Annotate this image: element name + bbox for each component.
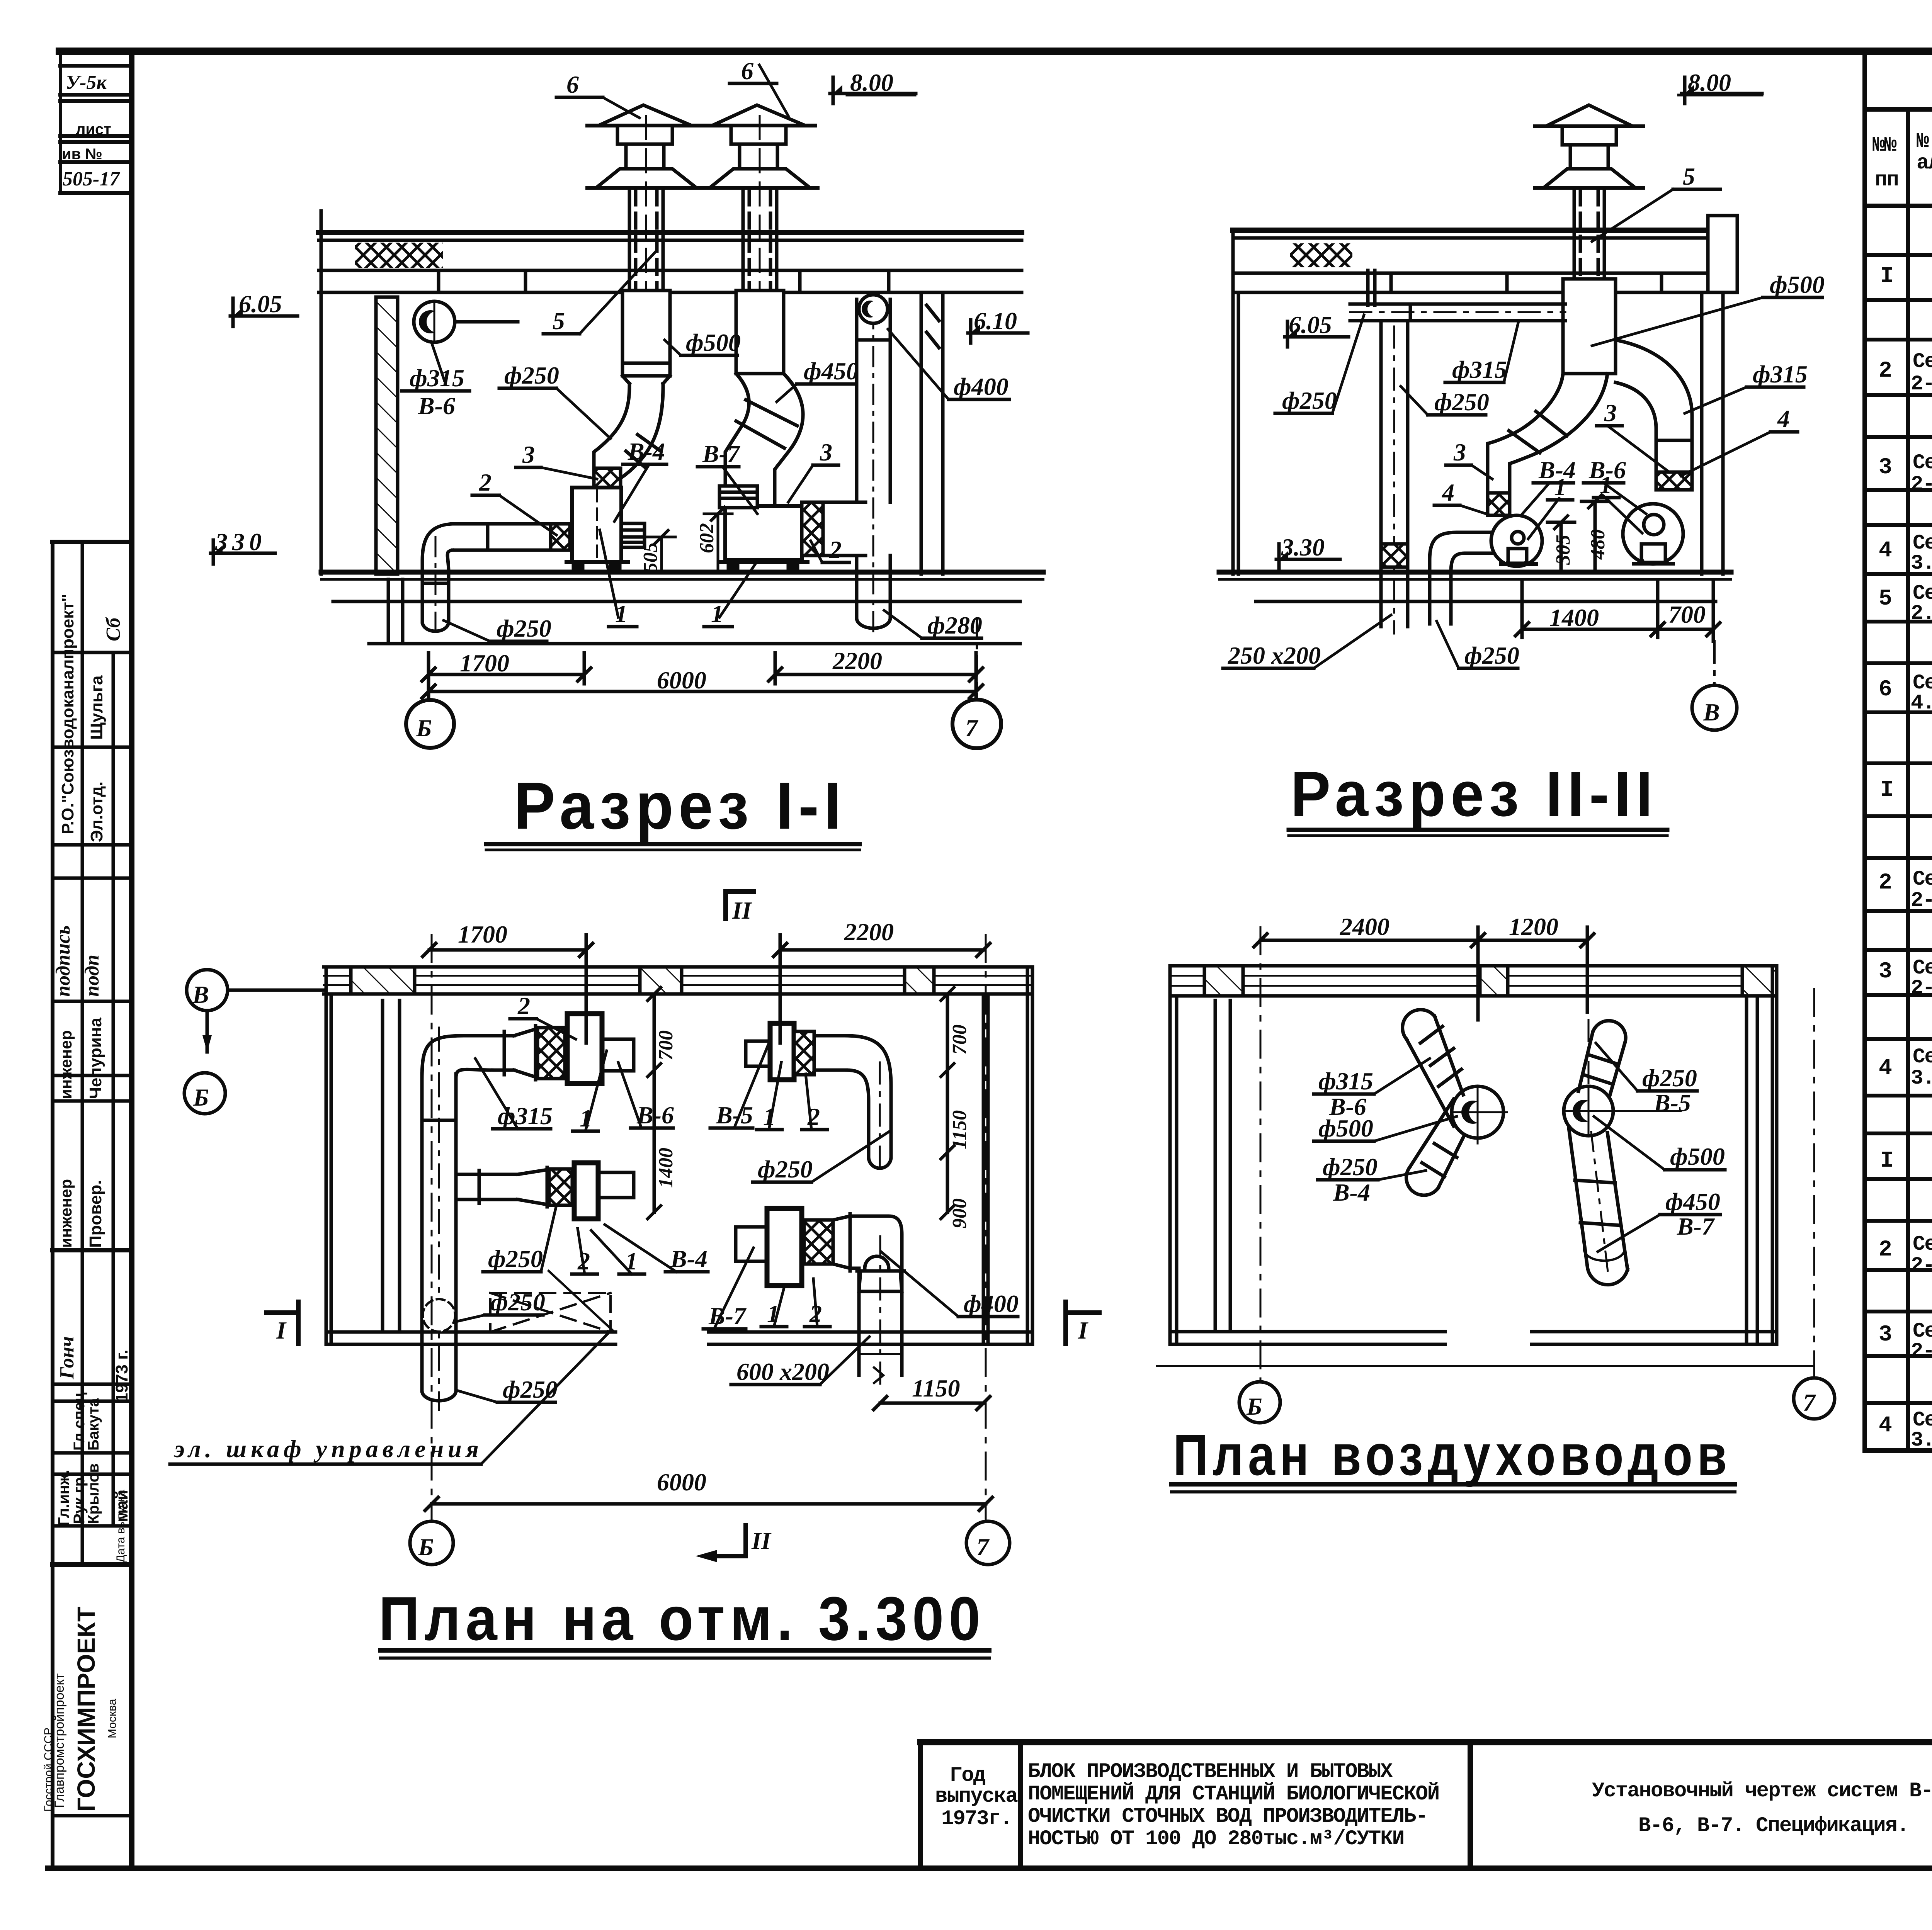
svg-text:7: 7 xyxy=(1803,1389,1816,1416)
fan 2 motor on top xyxy=(719,486,757,508)
right walls xyxy=(982,994,985,1344)
frame top border xyxy=(60,48,1932,55)
svg-text:900: 900 xyxy=(949,1198,971,1228)
svg-text:Дата выпуска: Дата выпуска xyxy=(114,1490,127,1563)
crescent vent symbol on riser top xyxy=(859,295,888,323)
column axis to bubble V xyxy=(1713,641,1716,685)
elevation mark 6.10 xyxy=(969,320,973,343)
horizontal duct B-6 line xyxy=(495,1034,514,1038)
flex insert B-4 (pos 2) xyxy=(549,1169,572,1205)
svg-text:8.00: 8.00 xyxy=(1688,69,1731,96)
column bubble 7 bottom xyxy=(966,1521,1010,1565)
svg-text:505-17: 505-17 xyxy=(63,168,120,190)
spec table verticals xyxy=(1862,54,1867,1451)
svg-text:1700: 1700 xyxy=(458,921,507,948)
svg-text:4: 4 xyxy=(1879,1056,1892,1081)
B-7 suction stub xyxy=(736,1225,767,1229)
parapet column above roof right xyxy=(1708,216,1737,292)
column axis verticals xyxy=(431,935,433,1521)
strip inner verticals xyxy=(81,542,84,1565)
svg-text:3.904-3(прим.): 3.904-3(прим.) xyxy=(1911,1067,1932,1090)
svg-text:2-494-8: 2-494-8 xyxy=(1911,372,1932,396)
svg-text:2-494-8: 2-494-8 xyxy=(1911,889,1932,912)
svg-text:пп: пп xyxy=(1875,168,1898,192)
svg-text:700: 700 xyxy=(655,1030,677,1060)
svg-text:5: 5 xyxy=(1879,586,1891,612)
svg-text:2: 2 xyxy=(517,992,530,1019)
svg-text:№ типового: № типового xyxy=(1917,130,1932,153)
duct f450 to S xyxy=(1569,1128,1628,1269)
roof slab bottom lines xyxy=(319,269,1022,272)
svg-text:подпись: подпись xyxy=(52,925,74,997)
svg-text:I: I xyxy=(276,1317,287,1344)
svg-text:План на отм. 3.300: План на отм. 3.300 xyxy=(379,1584,985,1653)
svg-text:1150: 1150 xyxy=(949,1110,971,1149)
svg-text:Год: Год xyxy=(950,1764,986,1787)
svg-text:В-4: В-4 xyxy=(628,438,665,465)
svg-text:НОСТЬЮ ОТ 100 ДО 280тыс.м³/СУТ: НОСТЬЮ ОТ 100 ДО 280тыс.м³/СУТКИ xyxy=(1028,1827,1404,1851)
stack 2 casing box xyxy=(736,291,784,374)
svg-text:2: 2 xyxy=(1879,358,1891,384)
svg-text:2: 2 xyxy=(1879,1237,1891,1262)
section mark I right xyxy=(1066,1310,1099,1315)
stack 1 transition to elbow xyxy=(622,376,629,384)
svg-text:В-6, В-7. Спецификация.: В-6, В-7. Спецификация. xyxy=(1638,1814,1908,1838)
section mark II bottom xyxy=(743,1525,748,1556)
section mark I left xyxy=(267,1310,298,1315)
svg-text:ф250: ф250 xyxy=(497,615,551,642)
small elbow duct near floor xyxy=(1430,532,1492,624)
bottom wall xyxy=(326,1330,616,1334)
column bubble 7 xyxy=(1794,1378,1835,1419)
drawing C leaders xyxy=(170,1019,1018,1658)
svg-text:II: II xyxy=(751,1527,772,1555)
dim line 2400 / 1200 xyxy=(1260,939,1587,942)
svg-text:700: 700 xyxy=(949,1024,971,1055)
stack 2 neck xyxy=(738,144,742,169)
stack 2 lower umbrella xyxy=(710,169,810,188)
right walls xyxy=(1745,996,1748,1344)
title underline xyxy=(381,1648,989,1653)
svg-text:3.904-3(прим): 3.904-3(прим) xyxy=(1911,1429,1932,1452)
svg-text:8.00: 8.00 xyxy=(850,69,893,96)
svg-text:эл. шкаф управления: эл. шкаф управления xyxy=(173,1435,483,1463)
dim 480 vertical xyxy=(1594,501,1597,572)
svg-text:ф250: ф250 xyxy=(1464,642,1519,669)
svg-text:1400: 1400 xyxy=(655,1148,677,1188)
frame left border xyxy=(129,51,134,1868)
svg-text:ф400: ф400 xyxy=(954,373,1009,400)
svg-text:602: 602 xyxy=(696,523,718,553)
svg-text:I: I xyxy=(1880,264,1893,289)
riser circle symbol xyxy=(423,1299,455,1332)
svg-text:ф500: ф500 xyxy=(1770,271,1825,298)
dimension line 1700 xyxy=(429,673,584,676)
svg-text:Разрез II-II: Разрез II-II xyxy=(1291,758,1658,829)
svg-text:альбома или: альбома или xyxy=(1917,151,1932,175)
roof slab lines xyxy=(1233,228,1723,233)
svg-text:Установочный чертеж систем В-4: Установочный чертеж систем В-4, В-5, xyxy=(1592,1779,1932,1803)
right wall xyxy=(920,292,923,574)
drawing C labels xyxy=(173,897,1088,1653)
B-7 discharge cone xyxy=(833,1216,850,1268)
column axes xyxy=(1260,927,1262,1382)
svg-text:6: 6 xyxy=(566,71,579,98)
svg-text:3: 3 xyxy=(1879,959,1891,984)
svg-text:ф250: ф250 xyxy=(758,1155,813,1183)
column bubble B (left top) xyxy=(187,970,228,1011)
svg-text:ф500: ф500 xyxy=(686,329,741,356)
duct f315 to NW xyxy=(1406,1016,1463,1126)
svg-text:7: 7 xyxy=(965,714,979,742)
left vertical duct f250 (to below floor) xyxy=(1379,321,1383,627)
duct f250 to SW xyxy=(1410,1099,1464,1188)
small table row lines xyxy=(60,64,129,68)
svg-text:1150: 1150 xyxy=(912,1374,960,1402)
svg-text:3: 3 xyxy=(1453,438,1466,466)
svg-text:Б: Б xyxy=(193,1084,209,1111)
svg-text:6.05: 6.05 xyxy=(1289,311,1332,338)
column bubble B xyxy=(406,700,454,748)
svg-text:600 х200: 600 х200 xyxy=(736,1358,829,1385)
section mark II top xyxy=(723,892,728,919)
small table left edge xyxy=(59,51,62,193)
svg-text:ф250: ф250 xyxy=(490,1288,545,1316)
inner vertical dim chain xyxy=(653,994,656,1212)
svg-text:3: 3 xyxy=(522,441,535,468)
top elbow to horizontal duct 1 xyxy=(422,1036,495,1078)
svg-text:В-4: В-4 xyxy=(1333,1179,1370,1206)
svg-text:5: 5 xyxy=(1683,163,1695,190)
svg-text:6000: 6000 xyxy=(657,666,706,694)
small table texts xyxy=(62,71,120,190)
svg-text:7: 7 xyxy=(976,1533,990,1561)
elevation 6.05 xyxy=(1286,321,1289,347)
fan box B-4 (pos 1) xyxy=(574,1163,598,1219)
insulation crosshatch patch on roof xyxy=(355,243,443,268)
svg-text:План воздуховодов: План воздуховодов xyxy=(1173,1422,1731,1487)
svg-text:3.904-3(прим.): 3.904-3(прим.) xyxy=(1911,552,1932,575)
svg-text:II: II xyxy=(732,897,752,924)
fan 2 base feet xyxy=(719,560,808,564)
spec table body text xyxy=(1879,223,1932,1453)
svg-text:4: 4 xyxy=(1879,538,1892,563)
svg-text:ф315: ф315 xyxy=(410,364,464,392)
flex insert (pos 2) on horizontal duct xyxy=(551,524,570,550)
dimension line 2200 xyxy=(775,673,976,676)
svg-text:ф450: ф450 xyxy=(804,357,859,385)
flex insert B-7 (pos 2) xyxy=(804,1220,833,1264)
svg-text:ОЧИСТКИ СТОЧНЫХ ВОД ПРОИЗВОДИТ: ОЧИСТКИ СТОЧНЫХ ВОД ПРОИЗВОДИТЕЛЬ- xyxy=(1028,1805,1427,1828)
svg-text:2-494-8: 2-494-8 xyxy=(1911,1254,1932,1278)
stack 2 cap body xyxy=(731,126,786,144)
svg-text:505: 505 xyxy=(639,542,662,573)
title underline xyxy=(1289,828,1667,832)
column bubble B xyxy=(1239,1382,1280,1423)
svg-text:В-7: В-7 xyxy=(708,1302,747,1330)
column bubble B bottom xyxy=(410,1521,453,1565)
discharge duct to riser xyxy=(823,501,866,504)
svg-text:4: 4 xyxy=(1879,1413,1892,1438)
svg-text:6.10: 6.10 xyxy=(974,307,1017,335)
elevation mark 330 xyxy=(211,552,275,555)
fan box B-7 (pos 1) xyxy=(767,1208,802,1286)
flex insert B-4 suction xyxy=(1488,493,1510,515)
svg-text:инженер: инженер xyxy=(57,1030,75,1099)
title underline xyxy=(486,842,860,846)
svg-text:В: В xyxy=(192,981,209,1008)
svg-text:ф315: ф315 xyxy=(1452,356,1507,383)
insulation crosshatch patch xyxy=(1290,243,1352,267)
svg-text:В-6: В-6 xyxy=(418,392,455,420)
crescent in left fan xyxy=(1461,1101,1485,1124)
dim 1150 bottom right xyxy=(880,1402,983,1405)
svg-text:250 х200: 250 х200 xyxy=(1228,642,1321,669)
elevation mark 6.05 xyxy=(231,298,235,326)
svg-text:2-494-8: 2-494-8 xyxy=(1911,473,1932,496)
elevation 8.00 xyxy=(1683,77,1687,104)
stack 1 neck xyxy=(624,144,628,169)
B-5 discharge duct and elbow down xyxy=(814,1034,846,1038)
svg-text:Серия: Серия xyxy=(1913,1045,1932,1069)
svg-text:Серия: Серия xyxy=(1913,868,1932,891)
svg-text:Р.О."Союзводоканалпроект": Р.О."Союзводоканалпроект" xyxy=(58,594,77,834)
frame bottom border xyxy=(48,1865,1932,1871)
title underline xyxy=(1172,1482,1735,1487)
stack lower umbrella xyxy=(1544,169,1635,188)
drawing B leaders xyxy=(1223,95,1822,836)
left wall xyxy=(325,967,328,1344)
right wall xyxy=(1700,292,1704,574)
svg-text:Серия: Серия xyxy=(1913,1233,1932,1256)
strip outer left edge xyxy=(51,542,54,1868)
svg-text:I: I xyxy=(1880,1148,1893,1174)
svg-text:ф250: ф250 xyxy=(504,362,559,389)
svg-text:ф500: ф500 xyxy=(1670,1143,1725,1170)
flex insert (pos 2) on fan2 discharge xyxy=(802,502,823,556)
electric cabinet dashed box xyxy=(490,1293,611,1332)
column bubble B' (left lower) xyxy=(184,1073,225,1114)
fan unit 2 (pos 1) xyxy=(725,506,802,560)
column axis lines xyxy=(428,657,430,700)
drawing D labels xyxy=(1173,913,1816,1487)
roof brick joints xyxy=(437,270,440,292)
svg-text:№№: №№ xyxy=(1872,134,1897,157)
left branch f250 duct from stack xyxy=(1510,374,1607,493)
svg-text:В-4: В-4 xyxy=(670,1245,707,1273)
column bubble 7 xyxy=(952,700,1001,748)
svg-text:Серия: Серия xyxy=(1913,451,1932,475)
dim 305 vertical xyxy=(1560,522,1563,572)
left wye: fan circle f500 xyxy=(1452,1086,1503,1138)
fan unit 1 (pos 1) xyxy=(572,488,621,562)
stack 1 upper column through roof xyxy=(628,188,631,291)
svg-text:4: 4 xyxy=(1442,479,1454,506)
svg-text:ив №: ив № xyxy=(62,146,102,163)
right branch elbow to f315 riser xyxy=(1616,340,1692,469)
stack 2 upper column through roof xyxy=(742,188,745,291)
stack neck xyxy=(1569,145,1572,169)
svg-text:2: 2 xyxy=(479,469,492,496)
left outer wall edge xyxy=(320,211,323,574)
svg-text:ф280: ф280 xyxy=(927,612,982,639)
floor slab xyxy=(1219,570,1731,575)
svg-text:Провер.: Провер. xyxy=(86,1180,105,1248)
svg-text:3.30: 3.30 xyxy=(1281,533,1325,561)
svg-text:1200: 1200 xyxy=(1509,913,1558,940)
stack column through roof xyxy=(1573,188,1576,279)
svg-text:ф250: ф250 xyxy=(503,1376,558,1403)
discharge duct B-4 xyxy=(598,1171,634,1174)
dim line 1700 / 2200 top xyxy=(429,948,586,952)
B-7 discharge elbow down xyxy=(850,1216,902,1375)
svg-text:Серия: Серия xyxy=(1913,350,1932,374)
svg-text:Эл.отд.: Эл.отд. xyxy=(87,782,106,842)
svg-text:Бакута: Бакута xyxy=(85,1398,102,1451)
discharge duct B-6 xyxy=(602,1038,634,1041)
svg-text:2400: 2400 xyxy=(1340,913,1389,940)
svg-text:ГОСХИМПРОЕКТ: ГОСХИМПРОЕКТ xyxy=(72,1607,100,1812)
dim 505 vertical xyxy=(660,537,663,572)
svg-text:БЛОК ПРОИЗВОДСТВЕННЫХ И БЫТ: БЛОК ПРОИЗВОДСТВЕННЫХ И БЫТОВЫХ xyxy=(1028,1760,1393,1784)
svg-text:I: I xyxy=(1880,778,1893,803)
stack 1 lower umbrella xyxy=(596,169,696,188)
svg-text:Б: Б xyxy=(418,1533,434,1561)
svg-text:ф250: ф250 xyxy=(1282,387,1337,414)
top wall band xyxy=(324,965,1032,969)
svg-text:Б: Б xyxy=(416,714,432,742)
svg-text:Гл.инж.: Гл.инж. xyxy=(55,1470,72,1526)
fan box B-5 (pos 1) xyxy=(770,1023,794,1080)
svg-text:ф315: ф315 xyxy=(1318,1067,1373,1095)
svg-text:В-7: В-7 xyxy=(1677,1213,1715,1240)
ground line below xyxy=(1157,1365,1812,1367)
stack cap body xyxy=(1562,126,1616,145)
svg-text:3: 3 xyxy=(1879,455,1891,480)
svg-text:Москва: Москва xyxy=(106,1699,119,1738)
svg-text:ф250: ф250 xyxy=(488,1245,543,1273)
vent stack 1 umbrella cap xyxy=(599,105,692,126)
right dim chain xyxy=(946,994,949,1212)
crescent in right fan xyxy=(1573,1100,1595,1122)
dimension 1400 / 700 xyxy=(1522,628,1713,631)
flex insert B-5 (pos 2) xyxy=(794,1031,814,1075)
svg-text:ф400: ф400 xyxy=(964,1290,1019,1317)
svg-text:Чепурина: Чепурина xyxy=(86,1018,105,1099)
drawing A labels xyxy=(215,57,1017,843)
horizontal suction duct to fan1 xyxy=(452,522,572,526)
svg-text:Б: Б xyxy=(1246,1393,1262,1420)
crescent vent symbol left xyxy=(414,301,455,342)
left wall xyxy=(1231,230,1235,574)
svg-text:В-7: В-7 xyxy=(702,440,741,467)
stack casing box xyxy=(1563,279,1616,374)
svg-text:ф500: ф500 xyxy=(1318,1115,1373,1142)
svg-text:ф315: ф315 xyxy=(498,1102,553,1130)
main vertical duct f250 xyxy=(420,1074,424,1391)
svg-text:У-5к: У-5к xyxy=(66,71,107,93)
svg-text:выпуска: выпуска xyxy=(935,1785,1018,1808)
svg-text:ПОМЕЩЕНИЙ ДЛЯ СТАНЦИЙ БИОЛОГИЧ: ПОМЕЩЕНИЙ ДЛЯ СТАНЦИЙ БИОЛОГИЧЕСКОЙ xyxy=(1028,1782,1439,1806)
svg-text:В-5: В-5 xyxy=(1653,1089,1691,1116)
svg-text:ф450: ф450 xyxy=(1665,1188,1720,1215)
fan 1 motor xyxy=(621,523,645,547)
left duct elbow down through floor xyxy=(422,524,452,622)
wall piers hatched xyxy=(1204,966,1243,996)
roof slab top line xyxy=(319,230,1022,235)
title block outline xyxy=(920,1739,1932,1745)
svg-text:1973 г.: 1973 г. xyxy=(112,1350,131,1402)
drawing D leaders xyxy=(1172,1043,1735,1492)
svg-text:2: 2 xyxy=(1879,870,1891,895)
svg-text:ф250: ф250 xyxy=(1434,388,1489,416)
vent stack 2 umbrella cap xyxy=(712,105,805,126)
svg-text:Разрез I-I: Разрез I-I xyxy=(514,769,846,843)
stack 1 casing box xyxy=(622,291,670,376)
left wall (hatched, cut) xyxy=(376,297,398,574)
svg-text:4.904-I2: 4.904-I2 xyxy=(1911,691,1932,715)
svg-text:2: 2 xyxy=(829,536,842,563)
svg-text:ф250: ф250 xyxy=(1642,1064,1697,1092)
fan B-4 scroll xyxy=(1491,515,1542,566)
svg-text:подп: подп xyxy=(81,955,103,997)
stack 1 cap body xyxy=(617,126,672,144)
flex insert on fan1 suction xyxy=(594,468,621,488)
flex insert B-6 suction xyxy=(1656,472,1692,490)
svg-text:700: 700 xyxy=(1668,601,1706,628)
spec table horizontals xyxy=(1865,107,1932,112)
svg-text:2200: 2200 xyxy=(844,918,894,946)
svg-text:6000: 6000 xyxy=(657,1468,706,1496)
elevation mark 8.00 xyxy=(832,77,835,104)
svg-text:2200: 2200 xyxy=(832,647,882,674)
elevation 3.30 xyxy=(1277,544,1281,569)
svg-text:Сб: Сб xyxy=(102,617,124,641)
svg-text:1: 1 xyxy=(1554,473,1566,501)
svg-text:1400: 1400 xyxy=(1549,604,1599,631)
duct f250 to NE xyxy=(1578,1032,1625,1097)
svg-text:3: 3 xyxy=(820,438,832,466)
svg-text:Щульга: Щульга xyxy=(87,675,106,740)
svg-text:2-494-8: 2-494-8 xyxy=(1911,977,1932,1000)
fan 1 base feet xyxy=(566,560,628,564)
svg-text:Крылов: Крылов xyxy=(85,1463,102,1524)
flex insert B-6 (pos 2) xyxy=(537,1028,565,1079)
svg-text:В-6: В-6 xyxy=(636,1101,674,1129)
interior wall pier xyxy=(1366,270,1370,305)
svg-text:4: 4 xyxy=(1777,405,1790,432)
strip rotated texts xyxy=(42,594,131,1812)
duct elbow f450 stack2 to fan2 xyxy=(775,374,803,506)
horizontal duct B-4 line xyxy=(456,1173,518,1176)
reducer cone B-6 xyxy=(514,1029,536,1077)
dim 6000 bottom xyxy=(432,1502,986,1506)
svg-text:В: В xyxy=(1703,698,1720,726)
dim 602 vertical xyxy=(717,514,719,572)
B-5 suction stub xyxy=(746,1040,770,1043)
svg-text:6: 6 xyxy=(741,57,753,85)
svg-text:2.494-I: 2.494-I xyxy=(1911,602,1932,625)
svg-text:5: 5 xyxy=(553,307,565,335)
svg-text:3: 3 xyxy=(1879,1322,1891,1347)
top horizontal duct f315 xyxy=(1350,302,1565,306)
dimension line 6000 xyxy=(429,690,976,693)
svg-text:Госстрой СССР: Госстрой СССР xyxy=(42,1728,55,1812)
fan box B-6 (pos 1) xyxy=(567,1014,602,1084)
duct elbow f250 stack1 to fan1 xyxy=(621,384,663,488)
floor slab xyxy=(321,570,1043,575)
svg-text:ф315: ф315 xyxy=(1753,360,1808,388)
